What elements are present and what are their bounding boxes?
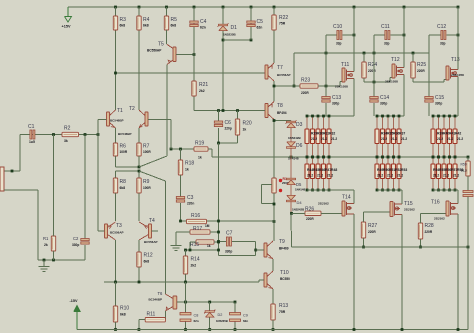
svg-text:C8: C8 [194,314,199,318]
capacitor C16 [463,191,473,193]
wire T14 drain [353,214,355,330]
svg-text:-15V: -15V [70,299,78,303]
diode D2 zener [209,302,211,330]
wire nfb row y=221 [181,220,275,222]
svg-text:R1: R1 [43,236,49,241]
wire gate bus riser [293,53,295,86]
resistor R26 [305,211,321,215]
svg-text:D2: D2 [218,313,223,317]
wire ground rail [38,259,85,261]
svg-text:R8: R8 [120,179,127,185]
svg-text:220R: 220R [368,69,376,73]
wire T7-T8 interstage [273,81,275,102]
svg-text:D3: D3 [296,122,303,128]
svg-text:D4: D4 [297,200,303,205]
wire R27 gate link [363,212,365,222]
ground [43,260,45,266]
wire T1 emitter to R6 [115,128,117,143]
svg-text:R24: R24 [368,62,377,68]
svg-text:220R: 220R [301,91,309,95]
svg-text:220n: 220n [187,202,194,206]
svg-text:T12: T12 [391,57,400,63]
wire R23 to T11 gate [318,85,340,87]
wire R4 column [138,7,140,110]
wire C10 leads [330,34,337,36]
diode D3 zener [290,121,292,158]
svg-text:R15: R15 [190,242,199,248]
wire T5 collector down to tail [166,65,168,157]
resistor R10 [115,282,117,306]
svg-text:T8: T8 [277,103,283,109]
wire input node [20,134,98,136]
svg-text:2SJ162: 2SJ162 [434,217,445,221]
svg-text:21.2: 21.2 [377,174,383,178]
wire zobel mid [467,176,469,191]
wire T8 emitter down to output rail [273,120,275,158]
wire C6-R20 join [218,128,220,143]
wire tail diagonal to T5 [139,156,167,167]
svg-text:BC556AP: BC556AP [144,240,158,244]
resistor R14 [185,250,187,256]
capacitor C4 [193,7,195,111]
resistor R24 [363,53,365,62]
svg-text:R6: R6 [120,144,127,150]
power terminal +15V [67,7,69,16]
svg-text:R48: R48 [331,168,337,172]
resistor bank R44-R48 lower1 [306,157,308,190]
svg-text:T13: T13 [451,57,460,63]
svg-text:21.2: 21.2 [447,137,453,141]
wire R17 left to ground [176,231,190,233]
svg-text:BF469: BF469 [279,247,289,251]
svg-text:21.2: 21.2 [443,174,449,178]
svg-text:1N5242B: 1N5242B [288,136,302,140]
svg-text:BC546BP: BC546BP [149,298,163,302]
wire T12 source [403,75,405,117]
wire T16 drain [457,214,459,330]
svg-text:R3: R3 [120,17,127,23]
capacitor C15 [425,97,433,99]
svg-text:R32: R32 [329,132,335,136]
svg-text:1u5: 1u5 [29,140,35,144]
resistor R22 [273,7,275,63]
resistor R15 [196,240,214,244]
svg-text:1M: 1M [205,224,210,228]
transistor T9 [264,243,267,257]
svg-text:R59: R59 [461,163,467,167]
svg-text:R14: R14 [191,257,200,263]
svg-text:220p: 220p [225,127,232,131]
svg-text:R2: R2 [64,126,71,132]
svg-text:1k: 1k [243,128,247,132]
wire T13 drain [457,7,459,70]
svg-text:1k: 1k [207,244,211,248]
resistor R1 [51,236,55,251]
resistor R7 [137,143,141,156]
svg-text:BC556AP: BC556AP [277,73,291,77]
svg-text:C1: C1 [28,124,35,130]
wire R11 left to rail [139,319,145,321]
resistor R27 [361,222,365,238]
svg-text:33p: 33p [336,42,342,46]
resistor bank R39-R43 [432,116,434,157]
svg-text:R9: R9 [143,179,150,185]
wire C7 leads [219,241,227,243]
capacitor C8 [185,302,187,313]
wire zener row y=40 [223,39,251,41]
svg-text:R42: R42 [455,132,461,136]
svg-text:220R: 220R [417,69,425,73]
svg-text:T2: T2 [129,106,135,112]
svg-text:D6: D6 [296,143,303,149]
svg-text:C12: C12 [437,24,446,30]
wire T5 emitter to R5 [166,30,168,44]
svg-text:R25: R25 [417,62,426,68]
svg-text:1N5242B: 1N5242B [292,207,304,211]
wire R28 gate link [420,214,422,223]
svg-text:R53: R53 [401,168,407,172]
wire bias chain down from T8 [273,157,275,178]
capacitor C1 [30,130,32,139]
svg-text:330p: 330p [380,102,387,106]
resistor bank R34-R38 [376,116,378,157]
svg-text:R19: R19 [195,141,204,147]
capacitor C14 [370,97,378,99]
svg-text:21.2: 21.2 [397,174,403,178]
wire feedback row y=149 [171,148,194,150]
wire vas output y=86 [274,85,300,87]
wire comp return [219,254,256,256]
svg-text:R37: R37 [399,132,405,136]
resistor R23 [300,84,318,88]
capacitor C9 [234,302,236,313]
wire lower bias row y=282 [104,281,259,283]
svg-text:21.2: 21.2 [307,174,313,178]
wire T11 source [353,79,355,117]
svg-text:T11: T11 [341,62,349,68]
resistor R6 [113,143,117,156]
wire gate bus y=53 [294,52,429,54]
wire C12 leads [429,34,441,36]
svg-text:62n: 62n [257,26,263,30]
transistor T10 [264,273,267,287]
svg-text:6k8: 6k8 [120,24,126,28]
svg-text:D1: D1 [231,25,238,31]
svg-text:T1: T1 [117,108,123,114]
svg-text:220R: 220R [425,230,433,234]
svg-text:T14: T14 [342,195,351,201]
svg-text:220R: 220R [368,230,376,234]
svg-text:C10: C10 [333,24,342,30]
svg-text:R26: R26 [305,207,314,213]
wire connector lower lead [4,189,38,191]
svg-text:62n: 62n [243,319,248,323]
wire T11 drain [353,7,355,72]
wire T10 base [259,279,264,281]
capacitor C11 [385,31,387,40]
svg-text:6k8: 6k8 [120,313,126,317]
resistor R29 zobel [467,156,470,159]
wire T3 collector down [115,240,117,282]
transistor T3 [105,224,108,238]
wire R26 leads [292,212,306,214]
svg-text:330p: 330p [72,243,79,247]
svg-text:62n: 62n [200,26,206,30]
wire output rail y=157 [212,156,468,158]
wire upper bank3 top [433,115,458,117]
svg-text:T4: T4 [149,218,155,224]
resistor R20 [237,111,239,120]
wire T6 base row [177,301,235,303]
svg-text:C15: C15 [435,95,444,101]
wire T16 source [457,190,459,204]
svg-text:1N5235B: 1N5235B [216,319,228,323]
wire T10 emitter to R13 [272,289,274,304]
svg-text:R22: R22 [279,15,288,21]
wire T2 emitter to R7 [138,128,140,143]
svg-text:1k: 1k [185,168,189,172]
svg-text:T3: T3 [116,223,122,229]
svg-text:R18: R18 [185,161,194,167]
wire R19 right bend [208,148,212,150]
resistor R9 [137,178,141,193]
wire R8 to T3 [115,193,117,221]
svg-text:6k8: 6k8 [144,260,150,264]
wire R25 to T13 gate [412,78,414,82]
svg-text:R12: R12 [144,253,153,259]
svg-text:21.2: 21.2 [453,174,459,178]
svg-text:C14: C14 [380,95,389,101]
svg-text:2SK1058: 2SK1058 [451,73,464,77]
diode D6 [286,147,295,149]
svg-text:R20: R20 [243,121,252,127]
wire T3 base [98,230,105,232]
wire base bus vertical [97,135,99,232]
wire T6 collector riser [164,181,166,294]
svg-text:2k: 2k [44,243,48,247]
transistor T5 [173,47,176,62]
diode D5 [290,157,292,208]
resistor R4 [137,16,141,30]
wire R14 column to T6 base [185,282,187,302]
wire upper bank2 top [377,115,404,117]
svg-text:R10: R10 [120,306,129,312]
wire C11 leads [374,34,385,36]
svg-text:C13: C13 [332,95,341,101]
wire lower bank3 bottom [433,189,458,191]
svg-text:R13: R13 [279,303,288,309]
transistor T1 [107,112,110,126]
resistor R3 [113,16,117,30]
svg-text:6k8: 6k8 [143,24,149,28]
resistor R28 [418,223,422,239]
svg-text:330p: 330p [225,250,232,254]
svg-text:21.2: 21.2 [437,137,443,141]
resistor R12 [137,252,141,267]
svg-text:D5: D5 [296,182,302,187]
svg-text:1N5235B: 1N5235B [223,33,237,37]
svg-text:T10: T10 [280,270,289,276]
svg-text:33p: 33p [440,42,446,46]
svg-text:75R: 75R [279,310,286,314]
svg-text:+15V: +15V [62,25,71,29]
svg-text:T7: T7 [277,65,283,71]
transistor T7 [265,65,268,79]
svg-text:R4: R4 [143,17,150,23]
capacitor C5 [250,7,252,40]
resistor R25 [412,53,414,62]
wire T15 drain [401,214,403,329]
preset buttons [279,179,282,182]
svg-text:C3: C3 [187,195,194,201]
capacitor C3 [180,175,182,197]
diode D4 [286,200,295,202]
wire T14 source [353,190,355,204]
svg-text:BC556AP: BC556AP [110,231,124,235]
svg-text:62n: 62n [194,319,199,323]
capacitor C10 [337,31,339,40]
svg-text:R21: R21 [199,82,208,88]
transistor T2 [145,112,148,126]
svg-text:T15: T15 [404,201,413,207]
svg-text:2k2: 2k2 [199,89,205,93]
svg-text:C4: C4 [200,19,207,25]
diode D1 zener [222,7,224,111]
wire emitter joint rows [115,156,117,167]
wire R28 bottom to bus [420,239,422,247]
resistor bank R49-R53 lower2 [376,157,378,190]
svg-text:21.2: 21.2 [433,174,439,178]
wire T15 source [401,190,403,204]
wire upper bank1 top [307,115,354,117]
svg-text:21.2: 21.2 [401,137,407,141]
transistor T12 mosfet [392,64,395,78]
wire T8 base row y=110.5 [194,110,265,112]
svg-text:2SJ162: 2SJ162 [404,207,415,211]
svg-text:BC556AP: BC556AP [147,49,162,53]
wire diode string tee [274,120,291,122]
svg-text:R5: R5 [171,17,178,23]
svg-text:BC546BP: BC546BP [118,132,132,136]
wire R3 column [115,7,117,110]
resistor R18 [180,149,182,160]
svg-text:100R: 100R [143,186,151,190]
svg-text:21.2: 21.2 [391,137,397,141]
svg-text:75R: 75R [279,22,286,26]
wire lower bank2 bottom [377,189,402,191]
connector J1 [0,167,4,191]
wire T9 emitter to T10 [272,259,274,271]
resistor R21 [192,81,196,96]
svg-text:2SJ162: 2SJ162 [318,202,329,206]
wire T13 source [457,77,459,117]
svg-text:33p: 33p [384,42,390,46]
svg-text:2k2: 2k2 [191,264,197,268]
capacitor C2 [84,135,86,240]
svg-text:BC550: BC550 [280,277,290,281]
wire row y=250 [186,249,219,251]
svg-text:BC546BP: BC546BP [110,119,124,123]
resistor bank R54-R58 lower3 [432,157,434,190]
transistor T13 mosfet [446,66,449,80]
svg-text:C5: C5 [257,19,264,25]
wire comp riser [218,143,220,255]
svg-text:21.2: 21.2 [311,137,317,141]
preset RV1 [272,178,276,193]
resistor R17 [190,230,210,234]
svg-text:21.2: 21.2 [381,137,387,141]
wire top +V rail [68,6,458,8]
svg-text:21.2: 21.2 [317,174,323,178]
resistor bank R29-R33 [306,116,308,157]
wire T9 base riser [255,242,257,256]
svg-text:21.2: 21.2 [387,174,393,178]
resistor R8 [113,178,117,193]
ground 2 [175,232,177,245]
svg-text:3k: 3k [64,139,68,143]
svg-text:21.2: 21.2 [331,137,337,141]
svg-text:T5: T5 [158,42,164,48]
transistor T11 mosfet [342,68,345,82]
svg-text:T6: T6 [158,291,164,296]
svg-text:C2: C2 [73,236,79,241]
wire R27 bottom to bus [363,238,365,247]
svg-text:R23: R23 [301,78,310,84]
svg-text:R28: R28 [425,223,434,229]
transistor T4 [149,224,152,238]
svg-text:330p: 330p [435,102,442,106]
resistor R13 [271,304,275,320]
svg-text:21.2: 21.2 [321,137,327,141]
wire R15 right to riser [214,241,219,243]
wire T4 base stub [152,230,159,232]
svg-text:6k8: 6k8 [120,186,126,190]
svg-text:1k: 1k [198,156,202,160]
svg-text:R17: R17 [193,226,202,232]
svg-text:BF494: BF494 [277,111,287,115]
svg-text:1N4148: 1N4148 [295,187,306,191]
resistor R16 [187,219,207,223]
wire diode column to bias bus [290,201,292,213]
capacitor C6 [218,111,220,123]
transistor T15 mosfet [390,202,393,217]
wire VAS feed y=73 [116,72,266,74]
wire gate bias bus y=247 [292,246,469,248]
resistor R19 [194,147,208,151]
svg-text:21.2: 21.2 [327,174,333,178]
resistor R2 [62,132,79,136]
wire lower bank1 bottom [307,189,354,191]
svg-text:R11: R11 [147,311,156,317]
resistor R11 [145,318,165,322]
svg-text:2SK1058: 2SK1058 [335,85,348,89]
svg-text:6k8: 6k8 [171,24,177,28]
svg-text:R7: R7 [143,144,150,150]
wire -V rail [77,329,468,331]
wire R15 left down [190,241,196,243]
svg-text:21.2: 21.2 [457,137,463,141]
transistor T14 mosfet [342,201,345,216]
transistor T8 [265,104,268,118]
wire R24 to T12 gate [363,78,365,82]
resistor R5 [164,16,168,30]
wire T2 base to feedback [148,119,171,121]
svg-text:21.2: 21.2 [461,169,467,173]
svg-text:330p: 330p [332,102,339,106]
wire T6 emitter [164,311,166,320]
transistor T16 mosfet [446,201,449,216]
svg-text:C7: C7 [226,231,233,237]
